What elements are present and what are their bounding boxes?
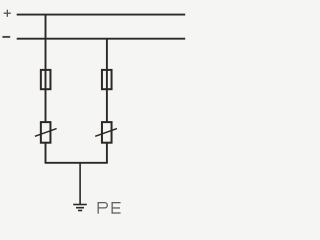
wire: right branch upper (negative bus down through fuse to varistor) xyxy=(106,39,108,122)
label PE xyxy=(98,202,120,214)
fuse F2 xyxy=(102,70,112,89)
wire: left branch lower (varistor to junction) xyxy=(45,143,47,163)
wire: right branch lower (varistor to junction) xyxy=(106,143,108,163)
wire: left branch upper (positive bus down through fuse to varistor) xyxy=(45,15,47,122)
plus label xyxy=(4,10,11,17)
ground PE symbol xyxy=(73,205,87,211)
wire: positive bus xyxy=(17,14,186,16)
varistor RV2 xyxy=(95,122,117,143)
varistor RV1 xyxy=(35,122,57,143)
fuse F1 xyxy=(41,70,51,89)
wire: negative bus xyxy=(17,38,186,40)
wire: ground stem xyxy=(79,163,81,205)
wire: bottom junction bar xyxy=(45,162,108,164)
minus label xyxy=(2,36,10,38)
